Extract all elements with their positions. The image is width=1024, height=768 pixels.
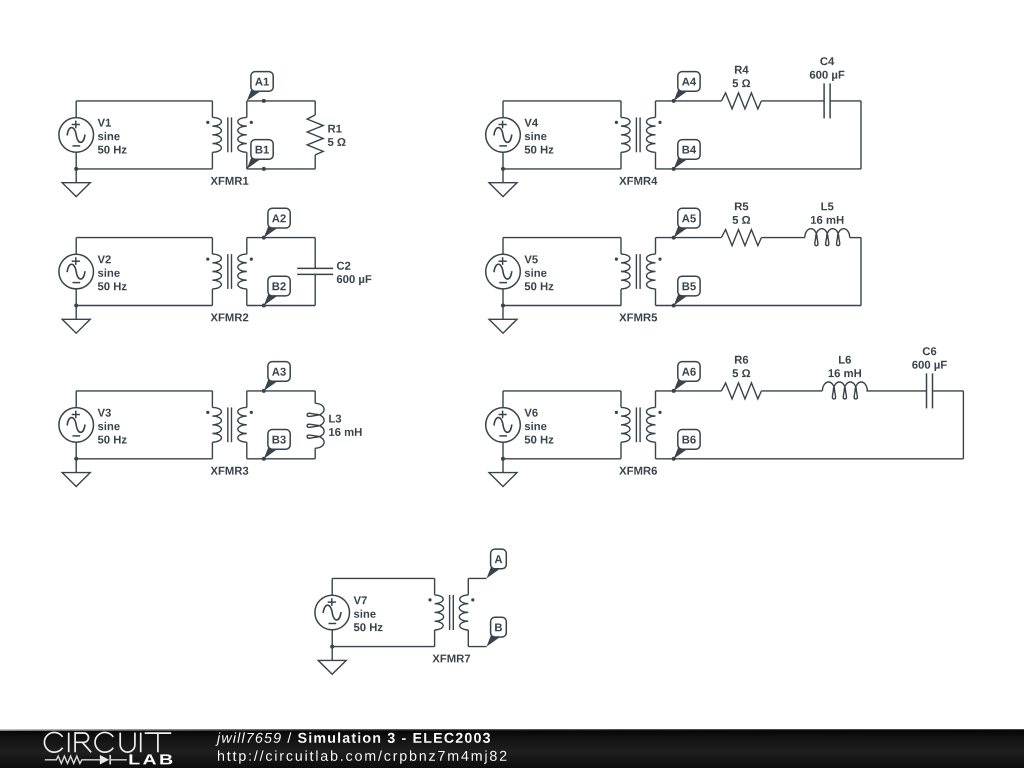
wire primary lead bottom of XFMR4 [620, 152, 622, 169]
node B4 [674, 140, 700, 169]
ground [489, 459, 517, 487]
wire secondary lead bottom of XFMR6 [655, 442, 657, 459]
wire junction at node A3 [262, 389, 266, 393]
capacitor C6 [927, 373, 933, 408]
wire secondary lead bottom of XFMR1 [246, 152, 248, 169]
transformer XFMR6 [615, 407, 662, 442]
label V6 sine 50 Hz [524, 409, 553, 444]
wire V4 bottom stub [502, 152, 504, 169]
wire secondary lead top of XFMR5 [655, 238, 657, 255]
wire secondary top rail [247, 237, 315, 239]
wire secondary lead bottom of XFMR4 [655, 152, 657, 169]
wire secondary bottom rail [247, 458, 315, 460]
label C6 600 µF [912, 347, 947, 371]
wire primary lead top of XFMR2 [211, 238, 213, 255]
wire secondary lead bottom of XFMR3 [246, 442, 248, 459]
wire primary top rail [503, 237, 621, 239]
wire L3 bottom lead [314, 448, 316, 459]
voltage source V3 [59, 408, 94, 443]
wire junction at source bottom [501, 304, 505, 308]
wire junction at node A2 [262, 236, 266, 240]
voltage source V2 [59, 254, 94, 289]
inductor L6 [822, 382, 867, 399]
node B2 [264, 276, 290, 305]
wire R1 top lead [314, 101, 316, 115]
wire junction on secondary bottom rail [262, 167, 266, 171]
wire secondary lead top of XFMR7 [467, 578, 469, 595]
label XFMR1 [211, 177, 249, 185]
wire V5 bottom stub [502, 289, 504, 306]
label XFMR7 [432, 655, 470, 663]
label V1 sine 50 Hz [98, 119, 127, 154]
wire junction on secondary top rail [262, 99, 266, 103]
wire primary bottom rail [76, 305, 212, 307]
node B5 [674, 276, 700, 305]
label V4 sine 50 Hz [524, 119, 553, 154]
wire primary bottom rail [76, 168, 212, 170]
wire V2 top stub [75, 238, 77, 255]
wire secondary lead top of XFMR2 [246, 238, 248, 255]
wire R1 bottom lead [314, 155, 316, 169]
transformer XFMR2 [206, 254, 253, 289]
label XFMR2 [211, 313, 249, 321]
wire [761, 100, 824, 102]
wire primary lead bottom of XFMR3 [211, 442, 213, 459]
transformer XFMR3 [206, 407, 253, 442]
resistor R5 [721, 230, 761, 246]
wire right edge [962, 391, 964, 459]
footer title text [215, 732, 490, 745]
wire junction at node A4 [672, 99, 676, 103]
wire junction at node A6 [672, 389, 676, 393]
wire secondary bottom rail [247, 168, 315, 170]
wire primary top rail [503, 390, 621, 392]
wire C2 bottom lead [314, 274, 316, 305]
wire V1 bottom stub [75, 152, 77, 169]
wire junction at node B3 [262, 457, 266, 461]
wire junction at node B5 [672, 304, 676, 308]
node A3 [264, 362, 290, 391]
label V3 sine 50 Hz [98, 409, 127, 444]
wire V6 top stub [502, 391, 504, 408]
ground [489, 169, 517, 197]
wire [761, 237, 804, 239]
wire primary lead top of XFMR6 [620, 391, 622, 408]
wire secondary lead bottom of XFMR2 [246, 289, 248, 306]
node B3 [264, 430, 290, 459]
label R4 5 Ω [733, 66, 751, 87]
wire [656, 390, 722, 392]
inductor L3 [307, 403, 324, 448]
wire junction at source bottom [330, 645, 334, 649]
label XFMR5 [619, 314, 657, 322]
node A1 [247, 72, 273, 101]
label R1 5 Ω [328, 125, 346, 146]
ground [489, 306, 517, 334]
wire primary bottom rail [503, 458, 621, 460]
label C4 600 µF [810, 57, 845, 81]
footer url text [218, 750, 506, 763]
wire primary lead bottom of XFMR7 [434, 630, 436, 647]
transformer XFMR5 [615, 254, 662, 289]
footer bar [0, 729, 1024, 768]
wire secondary top rail [247, 390, 315, 392]
wire V7 top stub [331, 578, 333, 595]
wire primary top rail [503, 100, 621, 102]
wire secondary lead bottom of XFMR5 [655, 289, 657, 306]
wire C2 top lead [314, 238, 316, 269]
capacitor C4 [824, 83, 830, 118]
wire primary lead top of XFMR5 [620, 238, 622, 255]
voltage source V7 [315, 595, 350, 630]
wire secondary lead top of XFMR1 [246, 101, 248, 118]
wire secondary lead top of XFMR3 [246, 391, 248, 408]
wire secondary lead top of XFMR4 [655, 101, 657, 118]
ground [62, 459, 90, 487]
wire primary lead bottom of XFMR5 [620, 289, 622, 306]
ground [62, 306, 90, 334]
wire [656, 100, 722, 102]
wire [830, 100, 861, 102]
node A4 [674, 72, 700, 101]
wire V3 top stub [75, 391, 77, 408]
wire primary lead top of XFMR7 [434, 578, 436, 595]
wire secondary bottom rail [656, 305, 862, 307]
label V2 sine 50 Hz [98, 255, 127, 290]
node A6 [674, 362, 700, 391]
voltage source V1 [59, 118, 94, 153]
wire [761, 390, 822, 392]
wire [866, 390, 926, 392]
capacitor C2 [297, 268, 333, 274]
wire V7 bottom stub [331, 630, 333, 647]
wire primary bottom rail [76, 458, 212, 460]
label XFMR4 [619, 177, 657, 185]
wire [656, 237, 722, 239]
wire secondary bottom rail [247, 305, 315, 307]
CircuitLab logo LAB text [130, 754, 173, 764]
wire primary lead top of XFMR1 [211, 101, 213, 118]
CircuitLab logo resistor-diode symbol [45, 755, 127, 765]
resistor R1 [307, 115, 323, 155]
wire junction at source bottom [74, 304, 78, 308]
transformer XFMR4 [615, 117, 662, 152]
wire junction at source bottom [501, 167, 505, 171]
node B1 [247, 140, 273, 169]
wire secondary top rail [247, 100, 315, 102]
label L6 16 mH [829, 356, 861, 378]
wire junction at source bottom [501, 457, 505, 461]
wire junction at node B6 [672, 457, 676, 461]
label R5 5 Ω [733, 203, 751, 224]
wire L3 top lead [314, 391, 316, 403]
node B [487, 617, 507, 646]
node A2 [264, 208, 290, 237]
wire V3 bottom stub [75, 442, 77, 459]
wire primary lead top of XFMR3 [211, 391, 213, 408]
voltage source V4 [486, 118, 521, 153]
label L3 16 mH [329, 415, 362, 436]
node B6 [674, 430, 700, 459]
label V7 sine 50 Hz [354, 596, 383, 631]
wire primary bottom rail [503, 168, 621, 170]
wire junction at node B4 [672, 167, 676, 171]
wire primary lead bottom of XFMR2 [211, 289, 213, 306]
label L5 16 mH [811, 203, 843, 224]
wire V2 bottom stub [75, 289, 77, 306]
wire V4 top stub [502, 101, 504, 118]
wire secondary lead bottom of XFMR7 [467, 630, 469, 647]
label XFMR6 [619, 467, 657, 475]
resistor R4 [721, 93, 761, 109]
ground [62, 169, 90, 197]
label V5 sine 50 Hz [524, 256, 553, 291]
wire junction at source bottom [74, 457, 78, 461]
wire right edge [860, 238, 862, 306]
label R6 5 Ω [733, 356, 751, 378]
voltage source V5 [486, 254, 521, 289]
wire [850, 237, 861, 239]
wire primary top rail [76, 390, 212, 392]
CircuitLab logo CIRCUIT text [44, 732, 171, 752]
wire secondary top stub [468, 577, 486, 579]
wire secondary lead top of XFMR6 [655, 391, 657, 408]
wire primary top rail [76, 100, 212, 102]
node A5 [674, 208, 700, 237]
wire V5 top stub [502, 238, 504, 255]
wire junction at node B2 [262, 304, 266, 308]
transformer XFMR7 [428, 595, 474, 630]
voltage source V6 [486, 408, 521, 443]
wire junction at node A5 [672, 236, 676, 240]
wire primary top rail [76, 237, 212, 239]
wire V1 top stub [75, 101, 77, 118]
wire [933, 390, 964, 392]
wire primary lead bottom of XFMR1 [211, 152, 213, 169]
wire primary bottom rail [332, 646, 434, 648]
wire secondary bottom stub [468, 646, 486, 648]
ground [318, 647, 346, 675]
resistor R6 [721, 383, 761, 399]
wire primary lead bottom of XFMR6 [620, 442, 622, 459]
transformer XFMR1 [206, 117, 253, 152]
node A [487, 549, 507, 578]
wire junction at source bottom [74, 167, 78, 171]
label C2 600 µF [337, 262, 372, 286]
wire primary top rail [332, 577, 434, 579]
label XFMR3 [211, 467, 249, 475]
wire secondary bottom rail [656, 168, 862, 170]
wire secondary bottom rail [656, 458, 964, 460]
inductor L5 [805, 229, 850, 246]
wire primary lead top of XFMR4 [620, 101, 622, 118]
wire right edge [860, 101, 862, 169]
wire V6 bottom stub [502, 442, 504, 459]
wire primary bottom rail [503, 305, 621, 307]
